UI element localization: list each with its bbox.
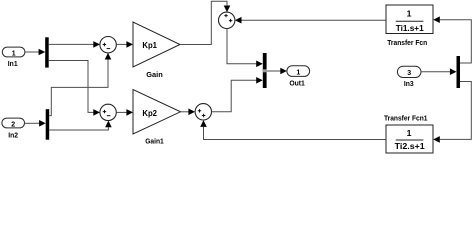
- wire Kp2 to sum S4: [181, 109, 196, 116]
- sum S1: [100, 37, 116, 53]
- wire In3 to demux D1: [421, 68, 457, 75]
- svg-text:In2: In2: [8, 130, 18, 139]
- wire B2 up to sum S1 (-): [49, 53, 111, 116]
- wire B2 to sum S2 (-): [49, 121, 111, 130]
- wire S4 up to mux M1: [212, 77, 263, 112]
- input port In3: [397, 66, 421, 88]
- svg-text:Gain: Gain: [146, 70, 163, 79]
- svg-text:2: 2: [11, 121, 15, 128]
- svg-text:Ti1.s+1: Ti1.s+1: [396, 23, 424, 33]
- wire TF1 output to sum S3: [235, 17, 386, 24]
- mux bar M1: [263, 53, 267, 88]
- sum S4: [195, 104, 211, 120]
- output port Out1: [287, 66, 310, 88]
- wire B1 to sum S1 (+): [49, 41, 100, 48]
- demux bar D1: [457, 56, 461, 88]
- svg-text:Transfer Fcn1: Transfer Fcn1: [384, 113, 428, 122]
- input port In2: [2, 118, 25, 139]
- wire S2 to gain Kp2: [116, 109, 133, 116]
- sum S2: [100, 104, 116, 120]
- svg-text:1: 1: [407, 9, 412, 19]
- svg-text:1: 1: [296, 69, 300, 76]
- transfer function block TF1 (top): [386, 5, 433, 47]
- wire S3 down to mux M1: [227, 29, 263, 68]
- transfer function block TF2 (bottom): [384, 113, 433, 153]
- wire TF2 output to sum S4: [200, 120, 386, 139]
- gain Kp2: [133, 90, 181, 146]
- svg-text:Gain1: Gain1: [145, 137, 164, 146]
- svg-text:Out1: Out1: [289, 79, 305, 88]
- svg-text:Ti2.s+1: Ti2.s+1: [395, 141, 425, 151]
- wire S1 to gain Kp1: [116, 41, 133, 48]
- wire B1 cross to sum S2 (+): [49, 61, 100, 116]
- svg-text:Transfer Fcn: Transfer Fcn: [387, 38, 427, 47]
- branch bar B1: [45, 37, 49, 67]
- gain Kp1: [133, 22, 180, 79]
- svg-text:In3: In3: [404, 79, 414, 88]
- wire D1 to TF2 input: [433, 82, 471, 143]
- svg-text:Kp2: Kp2: [142, 109, 157, 118]
- svg-text:1: 1: [12, 50, 16, 57]
- svg-text:3: 3: [407, 70, 411, 77]
- input port In1: [2, 47, 25, 68]
- branch bar B2: [46, 109, 50, 140]
- svg-text:Kp1: Kp1: [142, 41, 157, 50]
- wire In2 to branch bar B2: [25, 120, 46, 127]
- wire D1 to TF1 input: [433, 16, 471, 63]
- wire In1 to branch bar B1: [25, 49, 45, 56]
- wire Kp1 up-over to sum S3: [180, 1, 230, 44]
- svg-text:In1: In1: [8, 59, 18, 68]
- svg-text:1: 1: [407, 128, 412, 138]
- wire M1 to Out1: [267, 68, 287, 75]
- sum S3: [219, 12, 235, 28]
